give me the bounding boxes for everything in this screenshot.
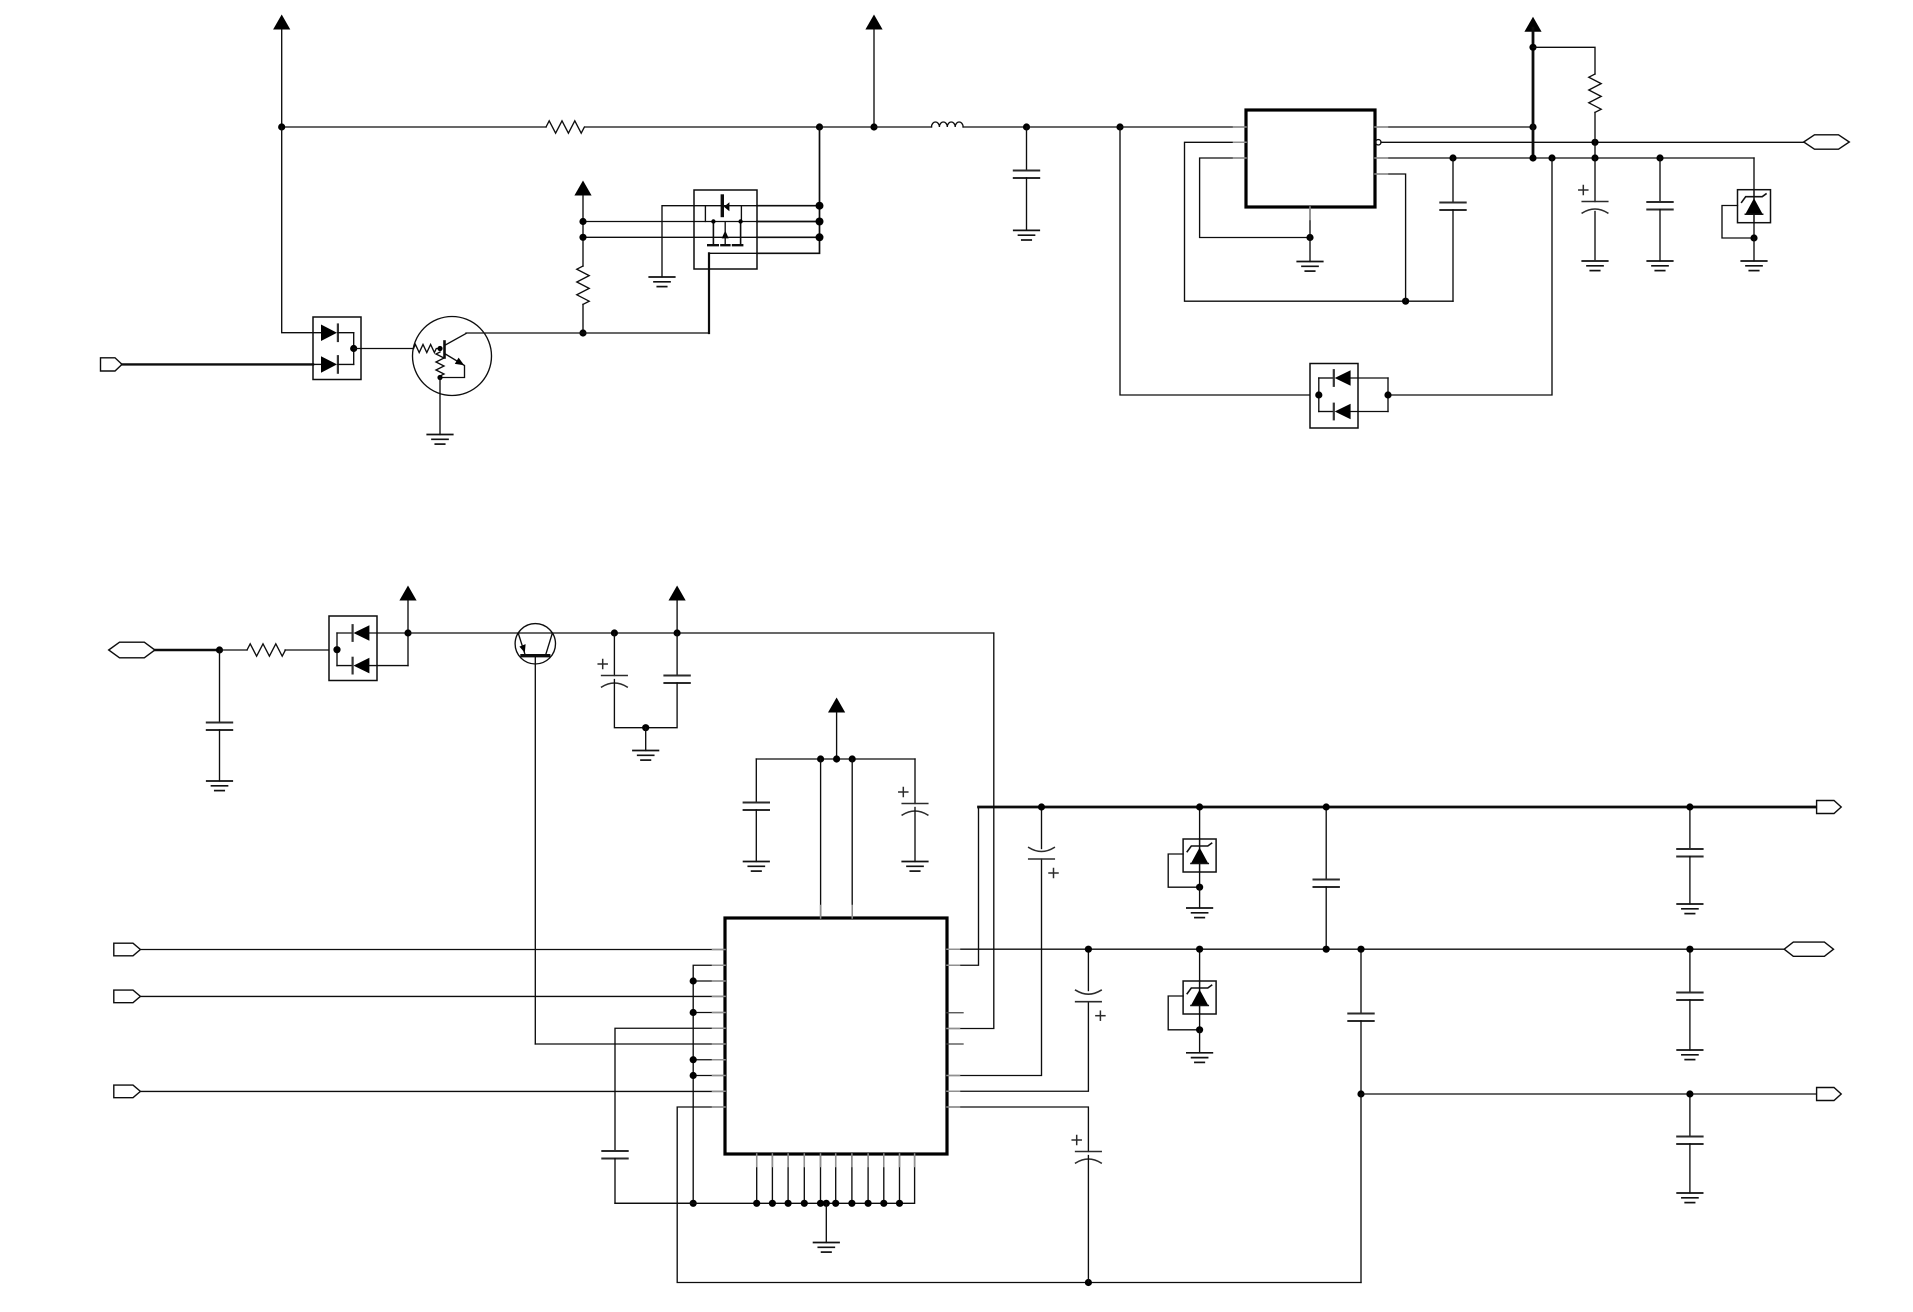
electrolytic C11 — [1029, 807, 1058, 878]
node VCC4 tap — [1529, 44, 1536, 51]
wire J4 to U1 pin1 — [1120, 126, 1246, 128]
ground Z2 — [1187, 908, 1213, 918]
Q3 inner wires row3 — [694, 236, 757, 238]
node bus p9 — [880, 1200, 887, 1207]
U1 left pin2 loop — [1185, 142, 1454, 301]
tvs Z3 — [1183, 949, 1216, 1030]
node VCC row b — [833, 755, 840, 762]
capacitor C16 — [1677, 807, 1703, 904]
Q3 bottom bars — [708, 244, 742, 246]
capacitor C2 — [1440, 158, 1466, 301]
U2 top pin a — [820, 759, 822, 918]
node J1 — [816, 123, 823, 130]
D2 right rail — [1387, 378, 1389, 412]
node pin2 loop — [1402, 298, 1409, 305]
capacitor C17 — [1677, 949, 1703, 1050]
diode D1b — [313, 356, 354, 373]
node D3 left — [333, 646, 340, 653]
node bottom line — [1085, 1279, 1092, 1286]
wire P1 to U2 pin1 — [140, 949, 725, 951]
power flag VCC3 — [574, 181, 591, 267]
wire D3 to Q2 and top net — [408, 632, 994, 634]
node C2 top — [1449, 154, 1456, 161]
node D3 out — [404, 629, 411, 636]
wire U1 pin2 to OUT1 — [1381, 141, 1804, 143]
ground C16 — [1677, 904, 1703, 914]
diode D3a — [337, 625, 408, 641]
regulator U1 — [1246, 110, 1375, 207]
wire main rail y=127 left — [282, 126, 546, 128]
wire to ground C6C7 — [645, 728, 647, 751]
wire R1 to Q3 rail — [585, 126, 820, 128]
wire bus to ground — [825, 1203, 827, 1242]
node VCC row c — [849, 755, 856, 762]
tvs Z1 — [1738, 158, 1771, 238]
wire J1 to J2 — [820, 126, 874, 128]
wire U2 pin3 — [693, 980, 725, 982]
connector IN1 — [101, 358, 123, 371]
wire Q3 pin1 to ground — [662, 206, 694, 277]
connector P3 — [114, 1085, 141, 1098]
node pin3 loop — [1306, 234, 1313, 241]
diode D3b — [337, 658, 408, 674]
node C14 bottom — [1323, 946, 1330, 953]
diode-pack D3 outline — [329, 616, 377, 681]
wire Z2 ground — [1199, 887, 1201, 908]
wire R4 to D3 — [285, 649, 337, 651]
resistor R1 — [546, 121, 584, 133]
U1 open-drain circle — [1376, 140, 1381, 145]
node Z3 bottom — [1196, 1026, 1203, 1033]
ground C5 — [207, 781, 233, 791]
wire P2 to U2 pin4 — [140, 995, 725, 997]
connector OUT1 — [1804, 135, 1850, 149]
Q1 base resistor — [414, 345, 441, 353]
node Q1 base — [437, 346, 442, 351]
node bus p2 — [769, 1200, 776, 1207]
inductor L1 — [932, 122, 964, 127]
wire IN1 to D1 — [122, 363, 313, 365]
node J4 — [1116, 123, 1123, 130]
ground U2 — [814, 1243, 840, 1253]
node Z3 top — [1196, 946, 1203, 953]
U2 right pin6 wire — [947, 859, 1042, 1076]
node bus p3 — [785, 1200, 792, 1207]
ground C18 — [1677, 1193, 1703, 1203]
node Q3 rail s — [816, 233, 824, 241]
U2 ground bus — [615, 1154, 915, 1203]
node bus gnd — [823, 1200, 830, 1207]
power flag VCC5 — [399, 586, 416, 634]
node C15 top — [1357, 946, 1364, 953]
ground C17 — [1677, 1050, 1703, 1060]
node Q3 rail g — [816, 218, 824, 226]
tvs Z2 — [1183, 807, 1216, 887]
resistor R3 — [1589, 74, 1601, 112]
power flag VCC7 — [828, 698, 845, 760]
ground C6C7 — [633, 751, 659, 761]
node rail bus — [690, 1200, 697, 1207]
wire Q1 collector rail — [466, 332, 709, 334]
U2 right pin2 riser — [947, 807, 979, 965]
wire J2 to L1 — [874, 126, 932, 128]
transistor Q2 circle — [515, 624, 555, 664]
capacitor C10 — [602, 1151, 693, 1203]
wire P3 to U2 pin10 — [140, 1090, 725, 1092]
ground Z3 — [1187, 1053, 1213, 1063]
Q1 base-emitter resistor — [436, 352, 444, 376]
U2 right NC stub b — [947, 1043, 963, 1045]
node Q3 gate a — [711, 219, 715, 223]
Q2 base drop — [534, 657, 536, 1044]
electrolytic C12 — [1076, 949, 1105, 1020]
capacitor C8 — [744, 759, 770, 862]
node bus p1 — [753, 1200, 760, 1207]
wire U2 pin9 — [693, 1075, 725, 1077]
node J3 — [1023, 123, 1030, 130]
wire D1 to Q1 — [354, 348, 414, 350]
capacitor C4 — [1647, 158, 1673, 261]
connector P1 — [114, 943, 141, 956]
U1 right pin4 drop — [1375, 174, 1406, 301]
ground Q1 — [427, 435, 453, 445]
electrolytic C9 — [899, 759, 928, 862]
ground C1 — [1014, 230, 1040, 240]
connector IN2 — [109, 642, 155, 658]
node U1 out top — [1529, 123, 1536, 130]
Q3 source return path — [709, 252, 757, 254]
node VCC1 tap — [278, 123, 285, 130]
connector OUTA — [1817, 801, 1842, 814]
Q1 emitter arrow — [455, 358, 464, 366]
node C16 top — [1686, 803, 1693, 810]
node Q3 gate b — [738, 219, 742, 223]
Q3 inner wires row2 — [694, 221, 757, 223]
node C4 top — [1656, 154, 1663, 161]
ground Z1 — [1741, 261, 1767, 271]
node rail pin8 — [690, 1056, 697, 1063]
wire R3 to output line — [1594, 112, 1596, 158]
node Q1 emitter — [437, 375, 442, 380]
node J2 — [870, 123, 877, 130]
node bus p6 — [832, 1200, 839, 1207]
Q1 base bar — [443, 342, 446, 358]
resistor R2 — [577, 266, 589, 304]
wire Z1 to ground — [1753, 238, 1755, 261]
U2 bottom pins — [757, 1154, 900, 1203]
Q3 top diode — [722, 196, 729, 216]
Z3 left strap — [1168, 996, 1199, 1030]
connector OUTB — [1784, 942, 1833, 956]
wire J4 down to D2 — [1120, 127, 1319, 395]
node rail pin3 — [690, 977, 697, 984]
wire VCC1 drop to D1 — [282, 127, 321, 333]
Z2 left strap — [1168, 854, 1199, 887]
node D1 out — [350, 345, 357, 352]
wire Q3 pin2 to R2 rail — [583, 221, 694, 223]
capacitor C7 — [646, 633, 690, 728]
wire VCC4 to R3 — [1533, 47, 1595, 74]
wire L1 to C1 node — [963, 126, 1026, 128]
ground U1 — [1297, 262, 1323, 272]
power flag VCC1 — [273, 15, 290, 128]
diode D2a — [1319, 370, 1388, 386]
node D2 left — [1315, 391, 1322, 398]
wire J3 to J4 — [1027, 126, 1121, 128]
node D2 riser top — [1548, 154, 1555, 161]
wire IN2 to node — [155, 649, 220, 652]
wire VCC row — [756, 758, 915, 760]
node bus p4 — [801, 1200, 808, 1207]
U2 right pin7 wire — [947, 1002, 1088, 1092]
U2 right NC stub a — [947, 1012, 963, 1014]
resistor R4 — [247, 644, 285, 656]
Q2 collector diagonal — [546, 633, 552, 654]
Q1 emitter — [441, 354, 465, 378]
diode D2b — [1319, 404, 1388, 420]
node bus p10 — [896, 1200, 903, 1207]
D3 left rail — [336, 633, 338, 666]
node D2 right — [1384, 391, 1391, 398]
wire node to R4 — [220, 649, 248, 651]
diode-pack D2 outline — [1310, 364, 1358, 429]
Q2 emitter diagonal — [518, 633, 525, 654]
node R2 mid — [579, 234, 586, 241]
node C18 top — [1686, 1090, 1693, 1097]
chip U2 — [725, 918, 947, 1154]
wire output line3 — [1361, 1093, 1817, 1095]
node C17 top — [1686, 946, 1693, 953]
Q3 inner wires row1 — [694, 206, 757, 222]
U1 ground pin — [1309, 207, 1311, 262]
connector OUTC — [1817, 1088, 1842, 1101]
node C3 top — [1591, 154, 1598, 161]
U2 right pin4 riser — [947, 633, 994, 1029]
node bus p7 — [848, 1200, 855, 1207]
node R3 bottom — [1591, 139, 1598, 146]
D2 left rail — [1318, 378, 1320, 412]
U2 left rail — [693, 965, 725, 1203]
wire U2 pin5 — [693, 1012, 725, 1014]
wire R2 to collector rail — [582, 304, 584, 333]
electrolytic C6 — [598, 633, 646, 728]
node C6-C7 ground — [642, 724, 649, 731]
capacitor C15 — [1348, 949, 1374, 1094]
ground C8 — [744, 862, 770, 872]
node IN2 — [216, 646, 223, 653]
node rail pin9 — [690, 1072, 697, 1079]
node Z1 bottom — [1750, 234, 1757, 241]
node C14 top — [1323, 803, 1330, 810]
electrolytic C3 — [1579, 158, 1608, 260]
U2 right pin8 wire — [947, 1107, 1088, 1152]
capacitor C1 — [1014, 127, 1040, 230]
D1 common rail — [353, 333, 355, 365]
node base wire — [579, 329, 586, 336]
diode-pack D1 outline — [313, 317, 361, 380]
U2 pin11 wire — [677, 1107, 1361, 1283]
capacitor C14 — [1313, 807, 1339, 949]
wire bottom riser — [1360, 1094, 1362, 1283]
node C7 top — [674, 629, 681, 636]
node C11 top — [1038, 803, 1045, 810]
node R2 top — [579, 218, 586, 225]
wire output line1 — [979, 806, 1817, 809]
mosfet-pack Q3 outline — [694, 190, 757, 269]
ground Q3 — [649, 277, 675, 287]
transistor Q1 circle — [413, 317, 492, 396]
wire Z3 ground — [1199, 1030, 1201, 1053]
Q1 collector — [445, 334, 467, 346]
U2 top pin b — [851, 759, 853, 918]
Q3 gate drive drop — [708, 253, 710, 333]
power flag VCC2 — [865, 15, 882, 128]
capacitor C18 — [1677, 1094, 1703, 1193]
wire output line2 — [947, 948, 1784, 950]
pin stubs U1 U2 — [713, 127, 1388, 1167]
electrolytic C13 — [1072, 1136, 1101, 1283]
ground C9 — [902, 862, 928, 872]
wire D2 riser — [1388, 158, 1552, 395]
power flag VCC6 — [669, 586, 686, 634]
node bus p5 — [817, 1200, 824, 1207]
node Z2 bottom — [1196, 884, 1203, 891]
wire Q2 to U2 pin7 — [535, 1043, 725, 1045]
node VCC4 bottom — [1529, 154, 1536, 161]
D3 right rail — [407, 633, 409, 666]
U2 pin6 wire — [615, 1028, 725, 1151]
U1 right pin3 net — [1375, 157, 1754, 159]
Q3 right rail — [757, 127, 820, 253]
U1 left pin3 loop — [1200, 158, 1310, 238]
wire Q3 pin3 to R2 rail — [583, 236, 694, 238]
node line3 left — [1357, 1090, 1364, 1097]
power flag VCC4 — [1524, 17, 1541, 158]
node C6 top — [611, 629, 618, 636]
capacitor C5 — [207, 650, 233, 781]
node Q3 rail d — [816, 202, 824, 210]
wire U2 pin8 — [693, 1059, 725, 1061]
Z1 left strap — [1722, 206, 1754, 239]
ground C3 — [1582, 261, 1608, 271]
Q2 emitter arrow — [519, 644, 525, 653]
node C12 top — [1085, 946, 1092, 953]
ground C4 — [1647, 261, 1673, 271]
node rail pin5 — [690, 1009, 697, 1016]
Q3 body diode — [722, 222, 729, 245]
node Z2 top — [1196, 803, 1203, 810]
connector P2 — [114, 990, 141, 1003]
U1 right pin1 wire — [1375, 126, 1533, 128]
Q2 base bar — [522, 654, 549, 657]
node VCC row a — [817, 755, 824, 762]
wire Q1 emitter to ground — [439, 378, 441, 435]
node bus p8 — [865, 1200, 872, 1207]
diode D1a — [321, 325, 354, 342]
Q3 gate bars — [713, 222, 740, 245]
